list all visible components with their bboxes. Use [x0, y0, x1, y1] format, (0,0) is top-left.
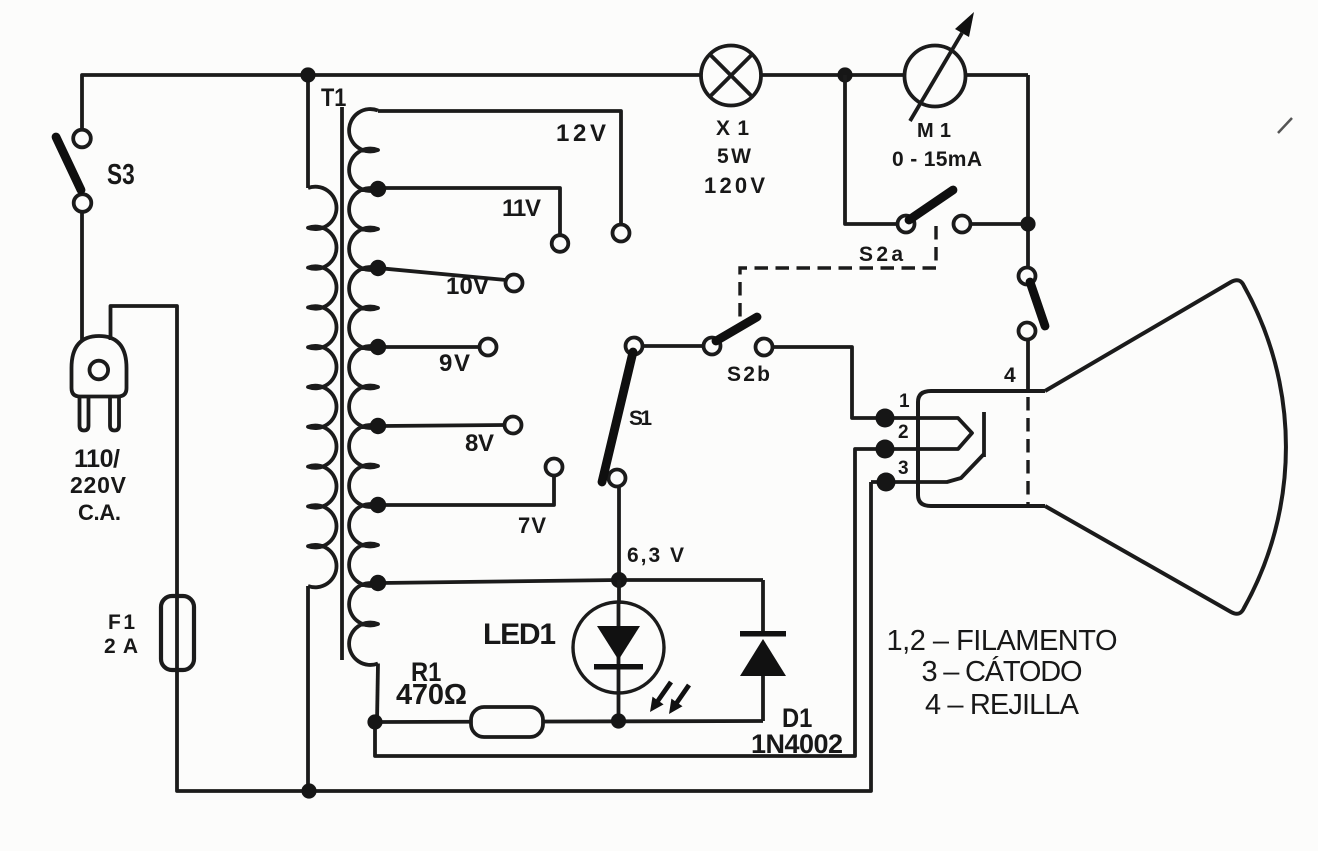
wire primary top feed — [306, 75, 310, 188]
svg-text:2A: 2A — [104, 635, 138, 658]
switch S1 — [626, 338, 643, 355]
node S2a right junction — [1020, 216, 1035, 231]
switch S2 (meter range) — [1019, 268, 1036, 285]
node pin 1 — [876, 409, 895, 428]
wire 11V tap — [378, 188, 560, 235]
svg-text:2: 2 — [898, 422, 909, 443]
tube grid dashed line — [1026, 397, 1029, 504]
terminal 9V — [480, 339, 497, 356]
svg-text:3: 3 — [898, 458, 909, 479]
node secondary tap 268 — [370, 260, 386, 276]
node 6.3V junction — [611, 572, 627, 588]
dashed link S2a to S2b — [740, 226, 936, 318]
resistor R1 470 ohm — [471, 707, 543, 737]
wire secondary bottom to lower junction — [377, 664, 378, 723]
wire plug to fuse and bottom rail to pin3 riser — [111, 306, 872, 791]
LED light arrows — [650, 681, 673, 712]
svg-text:120V: 120V — [704, 173, 765, 198]
node R1 left junction — [367, 714, 382, 729]
wire S2a to right vertical — [971, 222, 1029, 226]
node bottom rail primary junction — [301, 783, 316, 798]
terminal 12V — [613, 225, 630, 242]
svg-text:110/: 110/ — [74, 445, 120, 473]
svg-text:3 – CÁTODO: 3 – CÁTODO — [922, 655, 1083, 688]
wire top rail from S3 to right corner — [82, 75, 1028, 130]
node pin 2 — [876, 440, 895, 459]
node secondary tap 347 — [370, 339, 386, 355]
meter M1 0-15mA — [905, 46, 966, 107]
svg-text:M1: M1 — [917, 120, 951, 142]
diode D1 1N4002 — [761, 580, 765, 721]
wire 12V tap — [378, 111, 621, 225]
terminal 7V — [546, 459, 563, 476]
switch S3 — [73, 130, 91, 148]
tube flare and screen — [1045, 280, 1286, 614]
svg-text:X1: X1 — [716, 117, 749, 140]
svg-text:S2b: S2b — [727, 363, 770, 386]
wire 7V tap — [378, 476, 554, 506]
svg-text:470Ω: 470Ω — [396, 679, 467, 711]
svg-text:S1: S1 — [629, 407, 652, 430]
svg-text:S2a: S2a — [859, 243, 903, 266]
wire 9V tap — [378, 345, 479, 349]
wire S1 bottom to 6.3V junction — [617, 487, 621, 581]
node secondary tap 505 — [370, 497, 386, 513]
svg-text:S3: S3 — [107, 157, 135, 190]
svg-text:1: 1 — [899, 391, 910, 412]
heater filament electrode — [885, 418, 972, 449]
node secondary tap 583 — [370, 575, 386, 591]
node secondary tap 189 — [370, 181, 386, 197]
terminal 10V — [506, 275, 523, 292]
svg-text:1,2 – FILAMENTO: 1,2 – FILAMENTO — [887, 625, 1118, 657]
node top rail primary junction — [300, 67, 315, 82]
wire R1 row — [375, 721, 763, 722]
svg-text:12V: 12V — [556, 120, 606, 147]
lamp X1 5W 120V — [701, 46, 761, 106]
cathode electrode — [871, 454, 984, 482]
wire right vertical from rail to S2 switch — [1026, 75, 1030, 267]
terminal 11V — [552, 235, 569, 252]
terminal 8V — [505, 417, 522, 434]
svg-text:220V: 220V — [70, 472, 127, 498]
transformer T1 primary winding — [308, 187, 337, 588]
LED1 — [573, 602, 664, 693]
wire LED top — [617, 580, 621, 604]
svg-text:T1: T1 — [321, 84, 346, 112]
fuse F1 2A — [161, 596, 194, 670]
svg-text:C.A.: C.A. — [78, 500, 121, 525]
node top rail S2a junction — [837, 67, 852, 82]
wire S2a branch from rail — [845, 75, 898, 224]
wire 6.3V tap to D1 — [378, 580, 763, 583]
svg-text:0 - 15mA: 0 - 15mA — [892, 148, 982, 171]
wire primary bottom feed — [306, 586, 310, 791]
tube neck outline — [918, 391, 1045, 506]
svg-text:F1: F1 — [108, 611, 135, 634]
transformer T1 core — [340, 107, 344, 660]
wire S2b to pin 1 — [773, 347, 886, 418]
node pin 3 — [877, 473, 896, 492]
wire S2 switch to tube grid pin 4 — [1026, 340, 1030, 391]
svg-text:4: 4 — [1004, 364, 1016, 387]
svg-text:10V: 10V — [446, 273, 489, 300]
wire 8V tap — [378, 425, 504, 426]
AC plug 110/220V — [72, 336, 127, 397]
node secondary tap 426 — [370, 418, 386, 434]
transformer T1 secondary winding — [349, 109, 378, 665]
svg-text:8V: 8V — [465, 430, 494, 457]
switch S2a — [898, 216, 915, 233]
svg-text:9V: 9V — [439, 350, 470, 377]
wire 10V tap — [378, 268, 506, 280]
svg-text:11V: 11V — [502, 195, 541, 222]
svg-text:LED1: LED1 — [483, 618, 556, 651]
node LED bottom junction — [611, 713, 626, 728]
switch S2b — [704, 338, 721, 355]
scan artifact top right — [1278, 118, 1292, 133]
svg-text:5W: 5W — [717, 145, 751, 168]
wire S1 to S2b — [643, 344, 704, 348]
svg-text:1N4002: 1N4002 — [751, 729, 843, 759]
svg-text:6,3 V: 6,3 V — [627, 544, 684, 567]
svg-text:7V: 7V — [518, 513, 546, 538]
svg-text:4 – REJILLA: 4 – REJILLA — [925, 689, 1080, 721]
wire pin 2 return to winding — [375, 449, 885, 756]
wire S3 to plug — [80, 212, 84, 340]
